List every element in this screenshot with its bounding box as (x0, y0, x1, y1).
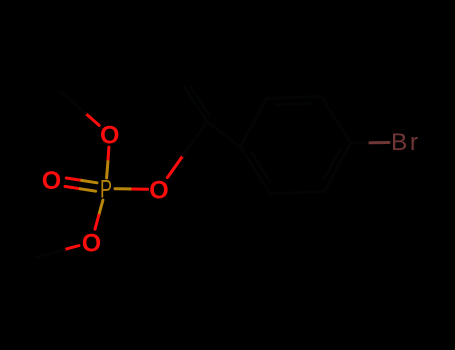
benzene inner double-bond line, top edge (277, 103, 312, 104)
svg-text:O: O (100, 121, 119, 149)
bond O4-C1 (red half near O4, dark half to vinyl carbon C1) (167, 122, 207, 178)
svg-text:O: O (82, 230, 101, 258)
benzene inner double-bond line, right-lower edge (324, 149, 341, 180)
bond C1=CH2 (terminal vinyl double bond, two dark lines) (184, 87, 209, 122)
benzene inner double-bond line, left-lower edge (251, 152, 270, 182)
bond P=O1 (double bond: two parallel lines, red half then goldenrod half) (65, 178, 97, 191)
bond ring-Br (dark carbon half, brown bromine half) (351, 141, 390, 145)
bond P-O3 (goldenrod half near P, red half near O3) (95, 200, 103, 229)
svg-text:O: O (42, 167, 61, 195)
svg-text:Br: Br (391, 129, 421, 156)
benzene ring outline (hexagon) (241, 96, 351, 193)
bond P-O2 (red half near O2, goldenrod half near P) (107, 147, 109, 178)
bond C1-ring (vinyl carbon to benzene left vertex) (207, 122, 241, 147)
bond O3-CH3 (bottom methyl: red half near O3, dark carbon half) (37, 246, 79, 257)
bond P-O4 (goldenrod half near P, red half near O4) (115, 187, 148, 191)
svg-text:O: O (149, 176, 168, 204)
bond O2-CH3 (top methyl: red half near O2, dark carbon half) (61, 92, 99, 125)
